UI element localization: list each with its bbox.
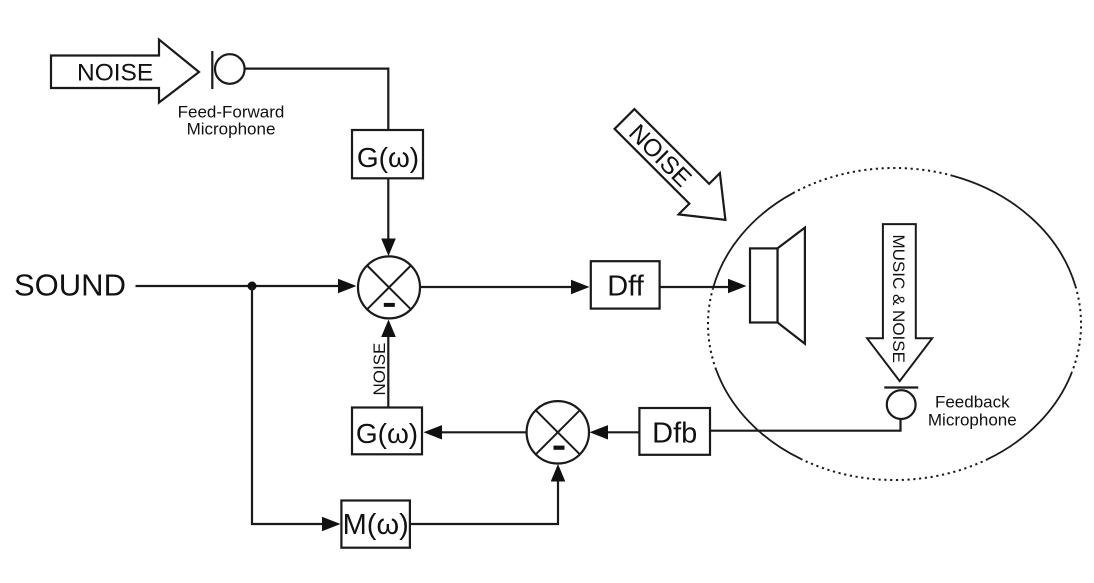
microphone M2 diaphragm line [884,386,918,388]
svg-text:NOISE: NOISE [77,60,153,87]
room ellipse solid arc left-upper [713,193,793,289]
arrowhead into S1 bottom [381,320,396,338]
microphone M1 diaphragm line [211,51,213,89]
box G1 [352,130,423,178]
box Dff [591,261,660,308]
wire mic2 to Dfb [710,419,901,431]
room ellipse dotted arc right [1072,286,1081,372]
svg-text:Microphone: Microphone [187,120,276,139]
S2 cross [536,410,580,454]
arrowhead into speaker [728,279,747,293]
arrowhead into G2 right [424,425,443,439]
block arrow NOISE (rotated, into room) [604,98,746,240]
wire M box to summing node S2 [410,481,558,524]
svg-text:Dff: Dff [607,271,644,303]
box Dfb [639,408,710,455]
wire junction down to M box [252,286,323,524]
summing junction S2 [527,401,589,463]
microphone M2 body [887,390,916,419]
svg-text:SOUND: SOUND [14,268,126,303]
arrowhead into S2 right [590,425,609,439]
wire mic1 to G1 [245,69,389,130]
room ellipse dotted arc left [708,289,716,370]
speaker cone [778,228,805,344]
speaker body [750,248,778,322]
wire G1 to summing node S1 [387,178,389,241]
wire S2 to G2 [442,431,527,433]
junction dot on SOUND line [248,282,257,291]
svg-text:M(ω): M(ω) [343,509,409,541]
svg-text:G(ω): G(ω) [357,142,419,173]
S1 minus sign [384,303,395,307]
wire S1 to Dff [420,286,572,288]
wire SOUND to S1 [136,285,340,287]
wire G2 up to S1 [387,337,389,408]
arrowhead into M box [322,517,341,531]
svg-text:Dfb: Dfb [652,418,697,450]
arrowhead into S1 top [381,239,396,257]
block arrow MUSIC & NOISE [867,224,932,381]
room ellipse dotted arc bottom [801,459,988,480]
S1 cross [367,266,411,310]
arrowhead into S2 bottom [551,464,566,482]
arrowhead into Dff [571,280,590,294]
svg-text:NOISE: NOISE [370,343,389,396]
microphone M1 body [215,54,245,84]
room ellipse dotted arc top [793,168,952,193]
room ellipse solid arc right-lower [988,372,1072,459]
wire Dfb to S2 [608,431,639,433]
room ellipse solid arc right-upper [952,176,1075,287]
svg-text:MUSIC & NOISE: MUSIC & NOISE [889,235,908,363]
svg-text:G(ω): G(ω) [356,418,418,449]
S2 minus sign [554,446,565,450]
svg-text:Feedback: Feedback [935,393,1010,412]
box G2 [352,408,422,455]
svg-text:Microphone: Microphone [928,411,1017,430]
wire Dff to speaker [660,286,729,288]
box M [341,501,410,548]
arrowhead into S1 left [338,279,357,293]
block arrow NOISE (feed-forward input) [51,40,199,103]
room ellipse solid arc left-lower [716,370,801,460]
summing junction S1 [358,256,420,318]
